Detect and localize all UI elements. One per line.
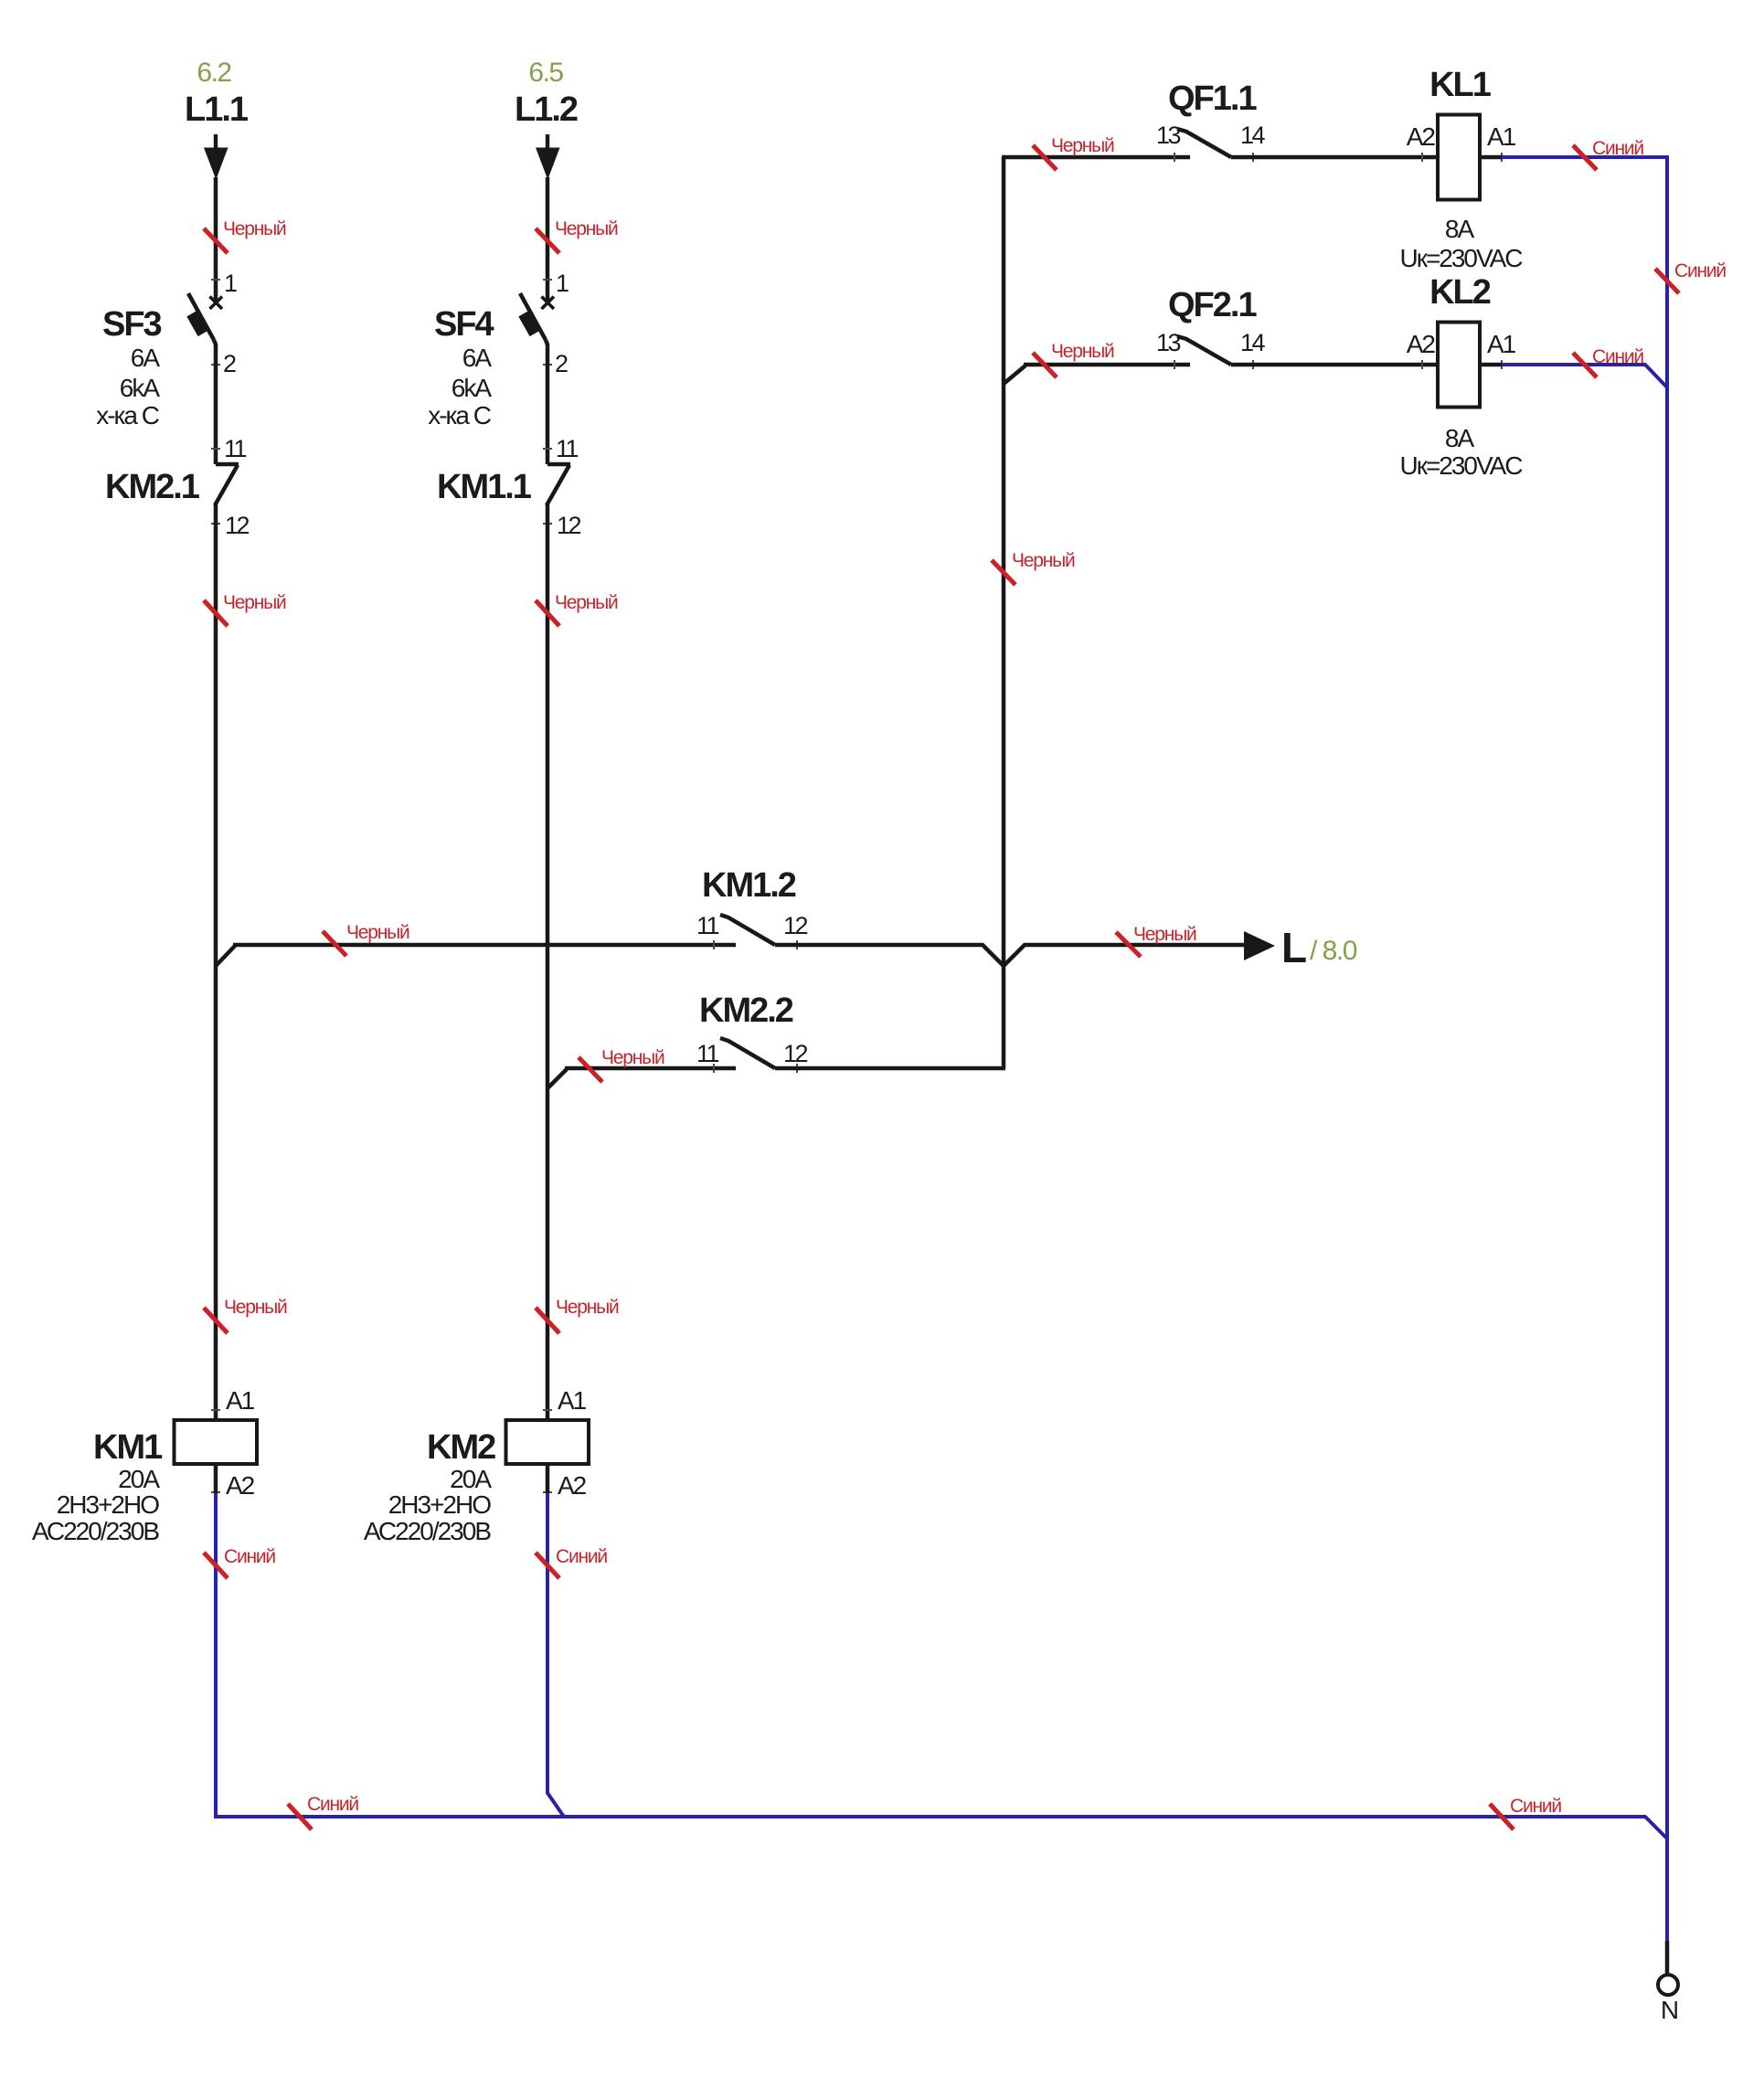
svg-text:х-ка С: х-ка С	[96, 401, 160, 429]
svg-text:Черный: Черный	[1012, 550, 1075, 571]
wire KM2.2 row right to QF vertical	[775, 1066, 1005, 1071]
svg-text:8A: 8A	[1445, 215, 1475, 243]
svg-text:6.2: 6.2	[197, 58, 231, 88]
pin 11 of KM2.2	[713, 1064, 715, 1073]
svg-text:KM2.1: KM2.1	[105, 468, 200, 506]
pin 12 of KM2.2	[796, 1064, 798, 1073]
blue wire KL1 to right vertical	[1502, 155, 1667, 159]
contact KM2.2 blade	[720, 1038, 775, 1068]
contact QF1.1 blade	[1177, 129, 1231, 157]
wire KM1.2 row left	[233, 943, 736, 948]
wire QF1.1 to KL1	[1231, 155, 1438, 160]
pin 2 of SF4	[543, 364, 552, 366]
svg-text:12: 12	[783, 912, 808, 939]
wire color label Синий (col1)	[204, 1553, 228, 1578]
svg-text:A1: A1	[558, 1386, 587, 1415]
wire color label Черный (KM1.2 row left)	[323, 931, 346, 956]
svg-text:12: 12	[783, 1040, 808, 1067]
pin 12 of KM2.1	[211, 523, 220, 525]
wire SF4 to KM1.1	[546, 344, 550, 464]
svg-text:Синий: Синий	[307, 1794, 358, 1815]
wire QF branch vertical	[1002, 157, 1006, 1068]
wire QF2.1 row left	[1024, 363, 1190, 367]
pin 11 of KM1.2	[713, 940, 715, 949]
svg-text:KM1.1: KM1.1	[437, 468, 532, 506]
blue neutral right vertical	[1665, 155, 1669, 1941]
svg-text:KM2.2: KM2.2	[699, 991, 793, 1030]
wire SF3 to KM2.1	[214, 344, 218, 464]
node L1.1 input arrow	[214, 134, 218, 148]
svg-text:KM2: KM2	[427, 1428, 495, 1467]
junction jog QF vertical to QF2.1 row	[1004, 366, 1025, 384]
pin A2 of KL2	[1421, 360, 1423, 369]
pin 12 of KM1.1	[543, 523, 552, 525]
svg-text:14: 14	[1240, 122, 1266, 149]
relay coil KL1	[1438, 115, 1480, 200]
svg-text:/ 8.0: / 8.0	[1310, 936, 1357, 966]
wire KL1 A1 stub black	[1480, 155, 1502, 160]
wire QF2.1 to KL2	[1231, 363, 1438, 367]
svg-text:Черный: Черный	[224, 1297, 287, 1318]
svg-text:Черный: Черный	[556, 1297, 619, 1318]
svg-text:KM1: KM1	[93, 1428, 163, 1467]
svg-text:Черный: Черный	[555, 218, 618, 239]
svg-text:АС220/230В: АС220/230В	[32, 1517, 159, 1545]
NC contact KM1.1	[547, 464, 570, 505]
terminal N circle	[1658, 1975, 1678, 1995]
wire QF1.1 row left	[1002, 155, 1190, 160]
svg-text:SF3: SF3	[102, 305, 162, 344]
pin 11 of KM1.1	[543, 448, 552, 450]
svg-text:11: 11	[696, 912, 719, 939]
pin 14 of QF1.1	[1252, 153, 1254, 162]
svg-text:14: 14	[1240, 329, 1266, 356]
svg-text:A2: A2	[558, 1471, 587, 1500]
wire KM1.2 row right to V junction	[775, 945, 1245, 966]
svg-text:13: 13	[1156, 122, 1181, 149]
wire KM1 A2 stub black	[214, 1464, 218, 1493]
svg-text:2Н3+2НО: 2Н3+2НО	[388, 1490, 492, 1519]
breaker SF3	[186, 293, 222, 345]
wire KM2.1 down to coil KM1	[214, 504, 218, 1420]
wire L1.2 down to SF4	[546, 177, 550, 302]
svg-text:11: 11	[556, 435, 579, 462]
wire color label Синий (KL1 row)	[1573, 145, 1597, 170]
node L output arrow	[1244, 931, 1275, 960]
pin A2 of KL1	[1421, 153, 1423, 162]
node L1.2 input arrow	[546, 134, 549, 148]
svg-text:Синий: Синий	[556, 1546, 607, 1567]
svg-text:Черный: Черный	[1051, 341, 1114, 362]
contact QF2.1 blade	[1177, 336, 1231, 365]
svg-text:Черный: Черный	[1133, 924, 1196, 945]
blue wire KL2 to right vertical	[1502, 365, 1667, 387]
svg-text:1: 1	[224, 270, 237, 297]
pin A2 of KM2	[543, 1491, 552, 1493]
wire color label Синий (col2)	[536, 1553, 559, 1578]
svg-text:Черный: Черный	[223, 218, 286, 239]
junction jog col1 to KM1.2 row	[216, 946, 235, 966]
pin A1 of KM1	[211, 1409, 220, 1411]
svg-text:L1.1: L1.1	[185, 90, 249, 129]
svg-text:6kA: 6kA	[120, 374, 161, 402]
svg-text:2: 2	[555, 350, 568, 377]
wire KM2.2 row left	[565, 1066, 736, 1071]
wire color label Черный (QF1.1 row)	[1033, 145, 1057, 170]
breaker SF4	[518, 293, 554, 345]
wire color label Черный (col2 mid)	[536, 600, 559, 626]
svg-text:L: L	[1281, 924, 1307, 971]
svg-text:Uк=230VAC: Uк=230VAC	[1399, 244, 1523, 272]
svg-text:QF2.1: QF2.1	[1168, 286, 1257, 324]
svg-text:Uк=230VAC: Uк=230VAC	[1399, 451, 1523, 480]
svg-text:A2: A2	[1407, 330, 1436, 358]
svg-text:6A: 6A	[462, 344, 493, 372]
wire color label Черный (col2 above KM2)	[536, 1308, 559, 1333]
svg-text:12: 12	[557, 512, 581, 539]
pin 13 of QF2.1	[1174, 360, 1175, 369]
svg-text:Черный: Черный	[601, 1047, 664, 1068]
svg-text:A2: A2	[226, 1471, 255, 1500]
svg-text:Синий: Синий	[1592, 138, 1643, 159]
svg-text:1: 1	[556, 270, 569, 297]
svg-text:8A: 8A	[1445, 424, 1475, 452]
wire color label Синий (bottom right)	[1490, 1804, 1514, 1829]
svg-text:KL2: KL2	[1429, 273, 1491, 312]
contact KM1.2 blade	[720, 915, 775, 945]
svg-text:12: 12	[225, 512, 250, 539]
coil KM2	[506, 1420, 590, 1464]
svg-text:Синий: Синий	[1592, 346, 1643, 367]
pin 14 of QF2.1	[1252, 360, 1254, 369]
svg-text:х-ка С: х-ка С	[428, 401, 492, 429]
relay coil KL2	[1438, 323, 1480, 408]
svg-text:N: N	[1661, 1996, 1677, 2024]
svg-text:Черный: Черный	[1051, 135, 1114, 156]
pin A2 of KM1	[211, 1491, 220, 1493]
wire L1.1 down to SF3	[214, 177, 218, 302]
wire color label Черный (QF2.1 row)	[1033, 353, 1057, 377]
svg-text:QF1.1: QF1.1	[1168, 80, 1257, 118]
blue neutral wire col2 down	[547, 1493, 564, 1817]
pin 12 of KM1.2	[796, 940, 798, 949]
svg-text:Синий: Синий	[224, 1546, 275, 1567]
pin A1 of KM2	[543, 1409, 552, 1411]
pin A1 of KL1	[1501, 153, 1503, 162]
svg-text:Синий: Синий	[1674, 260, 1726, 281]
svg-text:6A: 6A	[131, 344, 161, 372]
svg-text:A2: A2	[1407, 122, 1436, 151]
svg-text:L1.2: L1.2	[515, 90, 578, 129]
svg-text:Черный: Черный	[223, 592, 286, 613]
pin 11 of KM2.1	[211, 448, 220, 450]
wire color label Черный (col1 above KM1)	[204, 1308, 228, 1333]
wire color label Синий (bottom left)	[288, 1804, 312, 1829]
pin 1 of SF3	[211, 279, 220, 281]
svg-text:13: 13	[1156, 329, 1181, 356]
terminal N stub	[1665, 1941, 1670, 1975]
wire color label Синий (KL2 row)	[1573, 353, 1597, 377]
wire KL2 A1 stub black	[1480, 363, 1502, 367]
svg-text:6.5: 6.5	[528, 58, 563, 88]
svg-text:Синий: Синий	[1510, 1796, 1561, 1817]
svg-text:A1: A1	[1487, 330, 1516, 358]
blue neutral bottom horizontal	[214, 1817, 1667, 1839]
svg-text:Черный: Черный	[346, 922, 409, 943]
wire color label Черный (L arrow)	[1116, 932, 1141, 957]
wire color label Синий (right vertical)	[1655, 269, 1679, 293]
svg-text:6kA: 6kA	[452, 374, 493, 402]
svg-text:A1: A1	[226, 1386, 255, 1415]
wire KM1.1 down to coil KM2	[546, 504, 550, 1420]
svg-text:KL1: KL1	[1429, 66, 1492, 104]
pin A1 of KL2	[1501, 360, 1503, 369]
svg-text:11: 11	[696, 1040, 719, 1067]
svg-text:Черный: Черный	[555, 592, 618, 613]
wire color label Черный (col2 top)	[536, 228, 559, 253]
svg-text:2Н3+2НО: 2Н3+2НО	[57, 1490, 160, 1519]
NC contact KM2.1	[215, 464, 239, 505]
wire color label Черный (QF vertical)	[992, 560, 1015, 585]
wire color label Черный (col1 top)	[204, 228, 228, 253]
svg-text:20A: 20A	[450, 1465, 492, 1493]
junction jog col2 to KM2.2 row	[547, 1069, 567, 1088]
wire color label Черный (col1 mid)	[204, 600, 228, 626]
blue neutral wire col1 down	[214, 1493, 218, 1817]
wire color label Черный (KM2.2 row)	[579, 1057, 602, 1082]
pin 13 of QF1.1	[1174, 153, 1175, 162]
svg-text:20A: 20A	[118, 1465, 160, 1493]
pin 2 of SF3	[211, 364, 220, 366]
svg-text:2: 2	[223, 350, 236, 377]
svg-text:АС220/230В: АС220/230В	[364, 1517, 491, 1545]
coil KM1	[175, 1420, 258, 1464]
wire KM2 A2 stub black	[546, 1464, 550, 1493]
svg-text:KM1.2: KM1.2	[702, 866, 796, 905]
svg-text:A1: A1	[1487, 122, 1516, 151]
svg-text:SF4: SF4	[434, 305, 494, 344]
svg-text:11: 11	[224, 435, 247, 462]
pin 1 of SF4	[543, 279, 552, 281]
